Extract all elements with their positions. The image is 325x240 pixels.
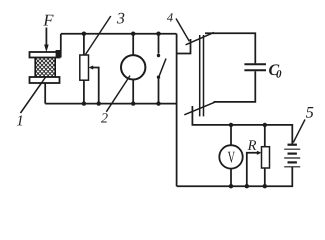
svg-text:2: 2	[101, 111, 108, 126]
svg-text:0: 0	[276, 69, 282, 81]
svg-text:V: V	[228, 148, 235, 167]
svg-text:F: F	[42, 10, 54, 29]
svg-text:3: 3	[116, 10, 125, 27]
svg-text:R: R	[247, 138, 257, 154]
svg-text:5: 5	[306, 104, 314, 121]
svg-text:1: 1	[16, 113, 24, 129]
svg-text:4: 4	[167, 11, 173, 25]
